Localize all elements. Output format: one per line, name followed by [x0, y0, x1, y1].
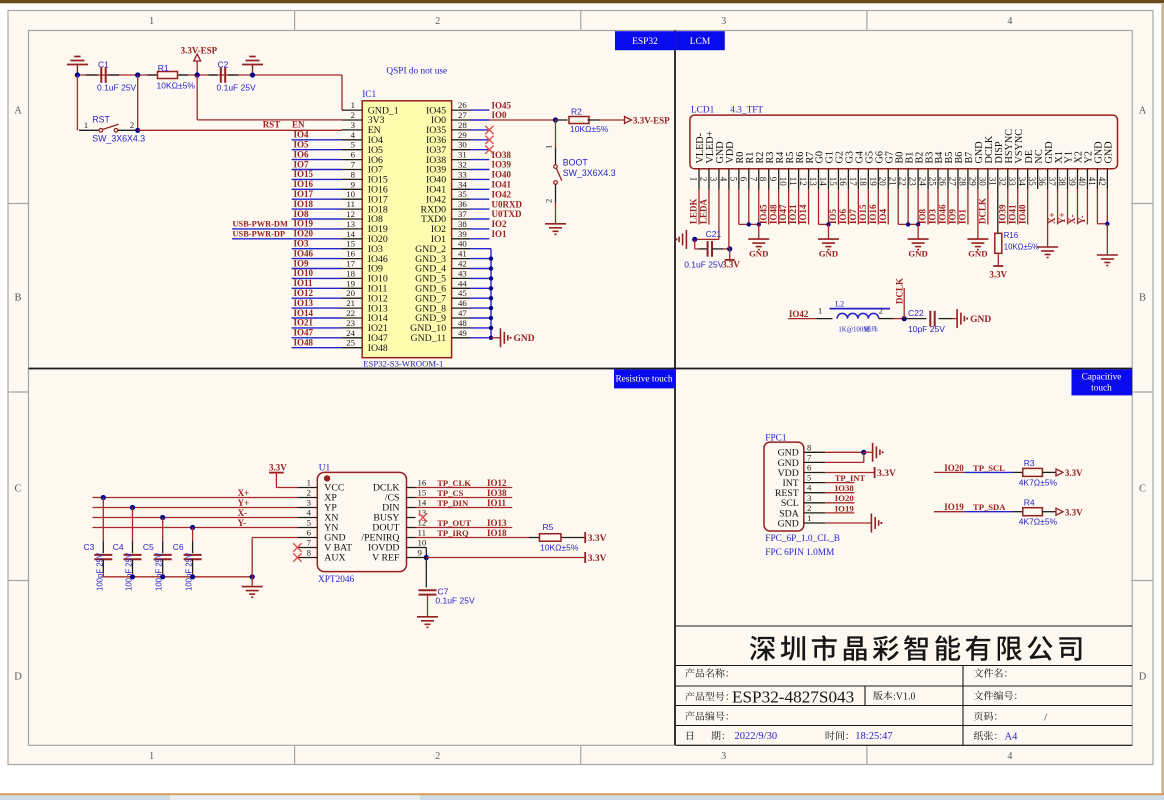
svg-text:100pF 25V: 100pF 25V: [155, 552, 164, 591]
svg-text:14: 14: [346, 229, 355, 239]
svg-text:2022/9/30: 2022/9/30: [735, 731, 778, 742]
svg-text:35: 35: [1027, 177, 1037, 187]
svg-text:25: 25: [346, 338, 355, 348]
svg-text:IO42: IO42: [492, 189, 512, 199]
svg-text:20: 20: [346, 288, 355, 298]
svg-text:2: 2: [807, 503, 811, 513]
svg-text:IO47: IO47: [778, 204, 788, 224]
svg-text:IO12: IO12: [487, 478, 507, 488]
svg-text:LEDK: LEDK: [689, 198, 699, 224]
svg-text:16: 16: [838, 177, 848, 187]
svg-text:46: 46: [458, 298, 467, 308]
svg-text:A4: A4: [1005, 731, 1019, 742]
svg-text:19: 19: [868, 177, 878, 187]
svg-text:4: 4: [307, 508, 312, 518]
svg-text:3.3V-ESP: 3.3V-ESP: [633, 116, 670, 126]
svg-text:13: 13: [808, 177, 818, 187]
svg-text:27: 27: [458, 110, 467, 120]
svg-text:IO10: IO10: [294, 268, 314, 278]
svg-text:8: 8: [758, 177, 768, 182]
svg-text:IO9: IO9: [294, 258, 310, 268]
svg-text:3.3V: 3.3V: [722, 260, 740, 270]
svg-text:28: 28: [957, 177, 967, 187]
svg-text:29: 29: [967, 177, 977, 187]
svg-text:IO17: IO17: [294, 189, 314, 199]
svg-text:IO3: IO3: [294, 239, 310, 249]
svg-text:DCLK: DCLK: [977, 198, 987, 224]
svg-text:IO11: IO11: [487, 498, 507, 508]
svg-text:RST: RST: [263, 120, 281, 130]
svg-text:IO4: IO4: [878, 208, 888, 224]
svg-text:48: 48: [458, 318, 467, 328]
svg-text:FPC1: FPC1: [765, 434, 787, 444]
svg-text:XPT2046: XPT2046: [318, 575, 355, 585]
svg-text:27: 27: [947, 177, 957, 187]
svg-text:10: 10: [778, 177, 788, 187]
svg-text:7: 7: [351, 160, 356, 170]
svg-text:X+: X+: [238, 488, 250, 498]
svg-text:9: 9: [351, 179, 356, 189]
svg-text:IO15: IO15: [858, 204, 868, 224]
svg-text:5: 5: [307, 518, 312, 528]
svg-text:Resistive touch: Resistive touch: [615, 375, 672, 385]
svg-text:1: 1: [807, 513, 811, 523]
svg-text:4: 4: [718, 177, 728, 182]
svg-text:2: 2: [351, 110, 355, 120]
svg-text:IO18: IO18: [487, 528, 507, 538]
svg-text:2: 2: [544, 199, 554, 203]
svg-text:DCLK: DCLK: [895, 278, 905, 304]
svg-text:4: 4: [1007, 751, 1012, 762]
svg-text:3.3V: 3.3V: [269, 462, 287, 472]
svg-text:R4: R4: [1024, 498, 1035, 508]
svg-text:R1: R1: [158, 63, 169, 73]
svg-text:1: 1: [351, 100, 355, 110]
svg-text:10pF 25V: 10pF 25V: [908, 324, 945, 334]
svg-text:8: 8: [807, 442, 812, 452]
svg-text:34: 34: [458, 179, 467, 189]
svg-text:7: 7: [807, 452, 812, 462]
svg-text:3.3V: 3.3V: [588, 534, 607, 544]
svg-text:R5: R5: [543, 522, 554, 532]
svg-text:U0TXD: U0TXD: [492, 209, 523, 219]
svg-text:3: 3: [721, 751, 726, 762]
svg-text:IO20: IO20: [835, 493, 855, 503]
svg-text:8: 8: [307, 548, 312, 558]
svg-text:C6: C6: [173, 542, 184, 552]
svg-text:31: 31: [987, 177, 997, 186]
svg-text:44: 44: [458, 278, 467, 288]
svg-text:LCM: LCM: [690, 37, 711, 47]
svg-text:D: D: [14, 672, 22, 683]
svg-text:/: /: [1044, 712, 1047, 723]
svg-text:IO6: IO6: [838, 208, 848, 224]
svg-text:12: 12: [346, 209, 355, 219]
svg-text:4: 4: [351, 130, 356, 140]
svg-text:3.3V: 3.3V: [588, 554, 607, 564]
svg-text:U1: U1: [319, 464, 331, 474]
svg-text:C: C: [14, 484, 21, 495]
svg-text:7: 7: [748, 177, 758, 182]
svg-text:26: 26: [458, 100, 467, 110]
svg-text:31: 31: [458, 150, 467, 160]
svg-text:GND: GND: [514, 334, 535, 344]
svg-text:24: 24: [918, 177, 928, 187]
svg-text:40: 40: [458, 239, 467, 249]
svg-text:IC1: IC1: [362, 90, 376, 100]
svg-text:43: 43: [458, 268, 467, 278]
svg-text:IO47: IO47: [294, 328, 314, 338]
svg-text:C4: C4: [113, 542, 124, 552]
svg-text:23: 23: [908, 177, 918, 187]
svg-text:22: 22: [346, 308, 355, 318]
svg-text:IO16: IO16: [294, 179, 314, 189]
svg-text:GND: GND: [1104, 141, 1115, 163]
svg-text:8: 8: [351, 169, 356, 179]
svg-text:2: 2: [130, 120, 134, 130]
svg-text:AUX: AUX: [324, 553, 345, 564]
svg-text:11: 11: [347, 199, 355, 209]
svg-text:FPC_6P_1.0_CL_B: FPC_6P_1.0_CL_B: [765, 534, 840, 544]
svg-text:45: 45: [458, 288, 467, 298]
svg-text:6: 6: [807, 463, 812, 473]
svg-text:IO40: IO40: [492, 170, 512, 180]
svg-text:10: 10: [346, 189, 355, 199]
svg-text:IO20: IO20: [944, 463, 964, 473]
svg-text:42: 42: [458, 259, 467, 269]
svg-text:35: 35: [458, 189, 467, 199]
svg-text:10KΩ±5%: 10KΩ±5%: [157, 80, 196, 90]
svg-text:GND: GND: [970, 315, 991, 325]
svg-text:16: 16: [418, 478, 427, 488]
svg-text:37: 37: [458, 209, 467, 219]
svg-text:A: A: [14, 106, 22, 117]
svg-text:17: 17: [848, 177, 858, 187]
svg-text:Y-: Y-: [1077, 215, 1087, 224]
svg-text:1: 1: [818, 305, 822, 315]
svg-text:TP_SCL: TP_SCL: [973, 463, 1005, 473]
svg-text:Y-: Y-: [238, 518, 247, 528]
svg-text:5: 5: [807, 473, 812, 483]
svg-text:15: 15: [418, 488, 427, 498]
svg-text:IO40: IO40: [1017, 204, 1027, 224]
svg-text:IO45: IO45: [758, 204, 768, 224]
svg-text:9: 9: [418, 548, 423, 558]
svg-text:3.3V-ESP: 3.3V-ESP: [181, 46, 218, 56]
svg-text:TP_SDA: TP_SDA: [973, 502, 1006, 512]
svg-text:V REF: V REF: [372, 553, 400, 564]
svg-text:29: 29: [458, 130, 467, 140]
svg-text:IO42: IO42: [789, 309, 809, 319]
svg-text::V1.0: :V1.0: [893, 691, 916, 702]
svg-text:IO48: IO48: [768, 204, 778, 224]
svg-text:22: 22: [898, 177, 908, 186]
svg-text:28: 28: [458, 120, 467, 130]
svg-text:6: 6: [738, 177, 748, 182]
svg-text:IO4: IO4: [294, 130, 310, 140]
svg-text:14: 14: [818, 177, 828, 187]
svg-text:25: 25: [928, 177, 938, 187]
svg-text:C3: C3: [84, 542, 95, 552]
svg-text:39: 39: [1067, 177, 1077, 187]
svg-text:18: 18: [858, 177, 868, 187]
svg-text:QSPI do not use: QSPI do not use: [386, 67, 447, 77]
svg-text:L2: L2: [835, 300, 844, 309]
svg-text:C21: C21: [706, 229, 722, 239]
svg-text:TP_IRQ: TP_IRQ: [437, 528, 469, 538]
svg-text:38: 38: [1057, 177, 1067, 187]
svg-text:IO38: IO38: [835, 483, 855, 493]
svg-text:TP_OUT: TP_OUT: [437, 518, 471, 528]
svg-text:36: 36: [1037, 177, 1047, 187]
svg-text:4: 4: [1007, 16, 1012, 27]
svg-text:4: 4: [807, 483, 812, 493]
svg-text:B: B: [14, 293, 21, 304]
svg-text:4K7Ω±5%: 4K7Ω±5%: [1019, 517, 1058, 527]
svg-text:IO41: IO41: [1007, 204, 1017, 224]
svg-text:32: 32: [458, 160, 467, 170]
svg-text:IO11: IO11: [294, 278, 314, 288]
svg-text:IO21: IO21: [294, 318, 314, 328]
svg-text:R2: R2: [571, 106, 582, 116]
svg-text:41: 41: [1087, 177, 1097, 186]
svg-text:touch: touch: [1091, 384, 1112, 394]
svg-text:IO19: IO19: [944, 502, 964, 512]
svg-text:10KΩ±5%: 10KΩ±5%: [540, 542, 579, 552]
svg-text:D: D: [1139, 672, 1147, 683]
svg-text:IO1: IO1: [492, 229, 508, 239]
svg-text:24: 24: [346, 328, 355, 338]
svg-text:IO38: IO38: [492, 150, 512, 160]
svg-text:0.1uF 25V: 0.1uF 25V: [217, 83, 257, 93]
svg-text:IO21: IO21: [788, 204, 798, 224]
svg-text:BOOT: BOOT: [563, 158, 589, 168]
svg-text:40: 40: [1077, 177, 1087, 187]
svg-text:IO3: IO3: [928, 208, 938, 224]
svg-text:GND_11: GND_11: [411, 333, 447, 344]
svg-text:ESP32-S3-WROOM-1: ESP32-S3-WROOM-1: [363, 359, 443, 369]
svg-text:2: 2: [307, 488, 311, 498]
svg-text:IO19: IO19: [835, 503, 855, 513]
svg-text:3.3V: 3.3V: [877, 469, 896, 479]
svg-text:IO14: IO14: [294, 308, 314, 318]
svg-text:IO9: IO9: [948, 208, 958, 224]
svg-text:IO2: IO2: [492, 219, 508, 229]
svg-text:34: 34: [1017, 177, 1027, 187]
svg-text:Y+: Y+: [1057, 212, 1067, 224]
svg-text:20: 20: [878, 177, 888, 187]
svg-text:2: 2: [698, 177, 708, 182]
svg-text:26: 26: [938, 177, 948, 187]
svg-text:2: 2: [435, 751, 440, 762]
svg-text:6: 6: [351, 150, 356, 160]
svg-text:IO7: IO7: [848, 208, 858, 224]
svg-text:C5: C5: [143, 542, 154, 552]
svg-text:R3: R3: [1024, 458, 1035, 468]
svg-text:3: 3: [351, 120, 356, 130]
svg-text:100pF 25V: 100pF 25V: [95, 552, 104, 591]
svg-text:X-: X-: [238, 508, 248, 518]
svg-text:IO8: IO8: [918, 208, 928, 224]
svg-text:IO5: IO5: [828, 208, 838, 224]
svg-text:1: 1: [149, 16, 154, 27]
svg-text:1: 1: [544, 145, 554, 149]
svg-text:0.1uF 25V: 0.1uF 25V: [97, 83, 137, 93]
svg-text:0.1uF 25V: 0.1uF 25V: [684, 260, 724, 270]
svg-text:IO41: IO41: [492, 180, 512, 190]
svg-text:GND: GND: [968, 249, 988, 259]
svg-text:3: 3: [307, 498, 312, 508]
svg-text:17: 17: [346, 259, 355, 269]
svg-text:11: 11: [788, 177, 798, 186]
svg-text:18: 18: [346, 268, 355, 278]
svg-text:11: 11: [418, 528, 426, 538]
svg-text:GND: GND: [908, 249, 928, 259]
svg-text:C: C: [1139, 484, 1146, 495]
svg-text:IO20: IO20: [294, 229, 314, 239]
svg-text:47: 47: [458, 308, 467, 318]
svg-text:21: 21: [888, 177, 898, 186]
svg-text:TP_CLK: TP_CLK: [437, 478, 471, 488]
svg-text:16: 16: [346, 249, 355, 259]
svg-text:1: 1: [307, 478, 311, 488]
svg-text:U0RXD: U0RXD: [492, 199, 523, 209]
svg-text:Y+: Y+: [238, 498, 250, 508]
svg-text:IO39: IO39: [492, 160, 512, 170]
svg-text:IO46: IO46: [294, 248, 314, 258]
svg-text:TP_INT: TP_INT: [835, 473, 866, 483]
svg-text:15: 15: [828, 177, 838, 187]
svg-text:USB-PWR-DM: USB-PWR-DM: [233, 220, 288, 229]
svg-text:A: A: [1139, 106, 1147, 117]
svg-text:37: 37: [1047, 177, 1057, 187]
svg-text:IO14: IO14: [798, 204, 808, 224]
svg-text:IO13: IO13: [294, 298, 314, 308]
svg-text:IO39: IO39: [997, 204, 1007, 224]
svg-text:IO12: IO12: [294, 288, 314, 298]
svg-text:3.3V: 3.3V: [1065, 507, 1083, 517]
svg-text:3.3V: 3.3V: [1065, 468, 1083, 478]
svg-text:41: 41: [458, 249, 467, 259]
svg-text:IO0: IO0: [492, 110, 508, 120]
svg-text:IO16: IO16: [868, 204, 878, 224]
svg-text:100pF 25V: 100pF 25V: [185, 552, 194, 591]
svg-text:GND: GND: [749, 249, 769, 259]
svg-text:2: 2: [435, 16, 440, 27]
svg-text:IO18: IO18: [294, 199, 314, 209]
svg-text:Capacitive: Capacitive: [1082, 373, 1122, 383]
svg-text:FPC 6PIN 1.0MM: FPC 6PIN 1.0MM: [765, 548, 834, 558]
svg-text:LEDA: LEDA: [699, 198, 709, 224]
svg-text:SW_3X6X4.3: SW_3X6X4.3: [92, 134, 145, 144]
svg-text:30: 30: [977, 177, 987, 187]
svg-text:C22: C22: [908, 308, 924, 318]
svg-text:IO5: IO5: [294, 140, 310, 150]
svg-text:SW_3X6X4.3: SW_3X6X4.3: [563, 168, 616, 178]
svg-text:RST: RST: [92, 114, 110, 124]
svg-text:TP_CS: TP_CS: [437, 488, 463, 498]
svg-text:IO6: IO6: [294, 149, 310, 159]
svg-text:3.3V: 3.3V: [989, 270, 1007, 280]
svg-text:R16: R16: [1004, 231, 1018, 240]
svg-text:19: 19: [346, 278, 355, 288]
svg-text:3: 3: [708, 177, 718, 182]
svg-text:15: 15: [346, 239, 355, 249]
svg-text:1K@100M: 1K@100M: [838, 327, 869, 334]
svg-text:10KΩ±5%: 10KΩ±5%: [570, 124, 609, 134]
svg-text:49: 49: [458, 328, 467, 338]
svg-text:USB-PWR-DP: USB-PWR-DP: [233, 230, 286, 239]
svg-text:33: 33: [1007, 177, 1017, 187]
svg-text:B: B: [1139, 293, 1146, 304]
svg-text:30: 30: [458, 140, 467, 150]
svg-text:39: 39: [458, 229, 467, 239]
svg-text:6: 6: [307, 528, 312, 538]
svg-text:42: 42: [1097, 177, 1107, 186]
svg-text:33: 33: [458, 169, 467, 179]
svg-text:10KΩ±5%: 10KΩ±5%: [1004, 243, 1039, 252]
svg-text:C2: C2: [218, 59, 229, 69]
svg-text:7: 7: [307, 538, 312, 548]
svg-text:32: 32: [997, 177, 1007, 186]
svg-text:4K7Ω±5%: 4K7Ω±5%: [1019, 477, 1058, 487]
svg-text:5: 5: [351, 140, 356, 150]
svg-text:ESP32-4827S043: ESP32-4827S043: [732, 688, 854, 707]
svg-text:0.1uF 25V: 0.1uF 25V: [435, 595, 475, 605]
svg-text:IO13: IO13: [487, 518, 507, 528]
svg-text:IO19: IO19: [294, 219, 314, 229]
svg-text:13: 13: [346, 219, 355, 229]
svg-text:100pF 25V: 100pF 25V: [125, 552, 134, 591]
svg-text:21: 21: [346, 298, 355, 308]
svg-text:9: 9: [768, 177, 778, 182]
svg-text:GND: GND: [778, 518, 799, 529]
svg-text:36: 36: [458, 199, 467, 209]
svg-text:4.3_TFT: 4.3_TFT: [730, 105, 763, 115]
svg-text:IO38: IO38: [487, 488, 507, 498]
svg-text:TP_DIN: TP_DIN: [437, 498, 469, 508]
svg-text:1: 1: [689, 177, 699, 182]
svg-text:1: 1: [149, 751, 154, 762]
svg-text:ESP32: ESP32: [632, 37, 658, 47]
svg-text:IO48: IO48: [368, 343, 388, 354]
svg-text:IO45: IO45: [492, 100, 512, 110]
svg-text:EN: EN: [292, 120, 305, 130]
svg-text:IO8: IO8: [294, 209, 310, 219]
svg-text:IO7: IO7: [294, 159, 310, 169]
svg-text:3: 3: [721, 16, 726, 27]
svg-text:5: 5: [728, 177, 738, 182]
svg-text:2: 2: [879, 305, 883, 315]
svg-text:C1: C1: [98, 59, 109, 69]
svg-text:X+: X+: [1047, 212, 1057, 224]
svg-text:23: 23: [346, 318, 355, 328]
svg-text:10: 10: [418, 538, 427, 548]
svg-text:LCD1: LCD1: [691, 105, 715, 115]
svg-text:IO46: IO46: [938, 204, 948, 224]
svg-text:18:25:47: 18:25:47: [855, 731, 892, 742]
svg-text:12: 12: [798, 177, 808, 186]
svg-text:1: 1: [84, 120, 88, 130]
svg-text:14: 14: [418, 498, 427, 508]
svg-text:IO1: IO1: [958, 208, 968, 224]
svg-text:IO15: IO15: [294, 169, 314, 179]
svg-text:38: 38: [458, 219, 467, 229]
svg-text:X-: X-: [1067, 215, 1077, 225]
svg-text:IO48: IO48: [294, 338, 314, 348]
svg-text:3: 3: [807, 493, 812, 503]
svg-text:GND: GND: [819, 249, 839, 259]
